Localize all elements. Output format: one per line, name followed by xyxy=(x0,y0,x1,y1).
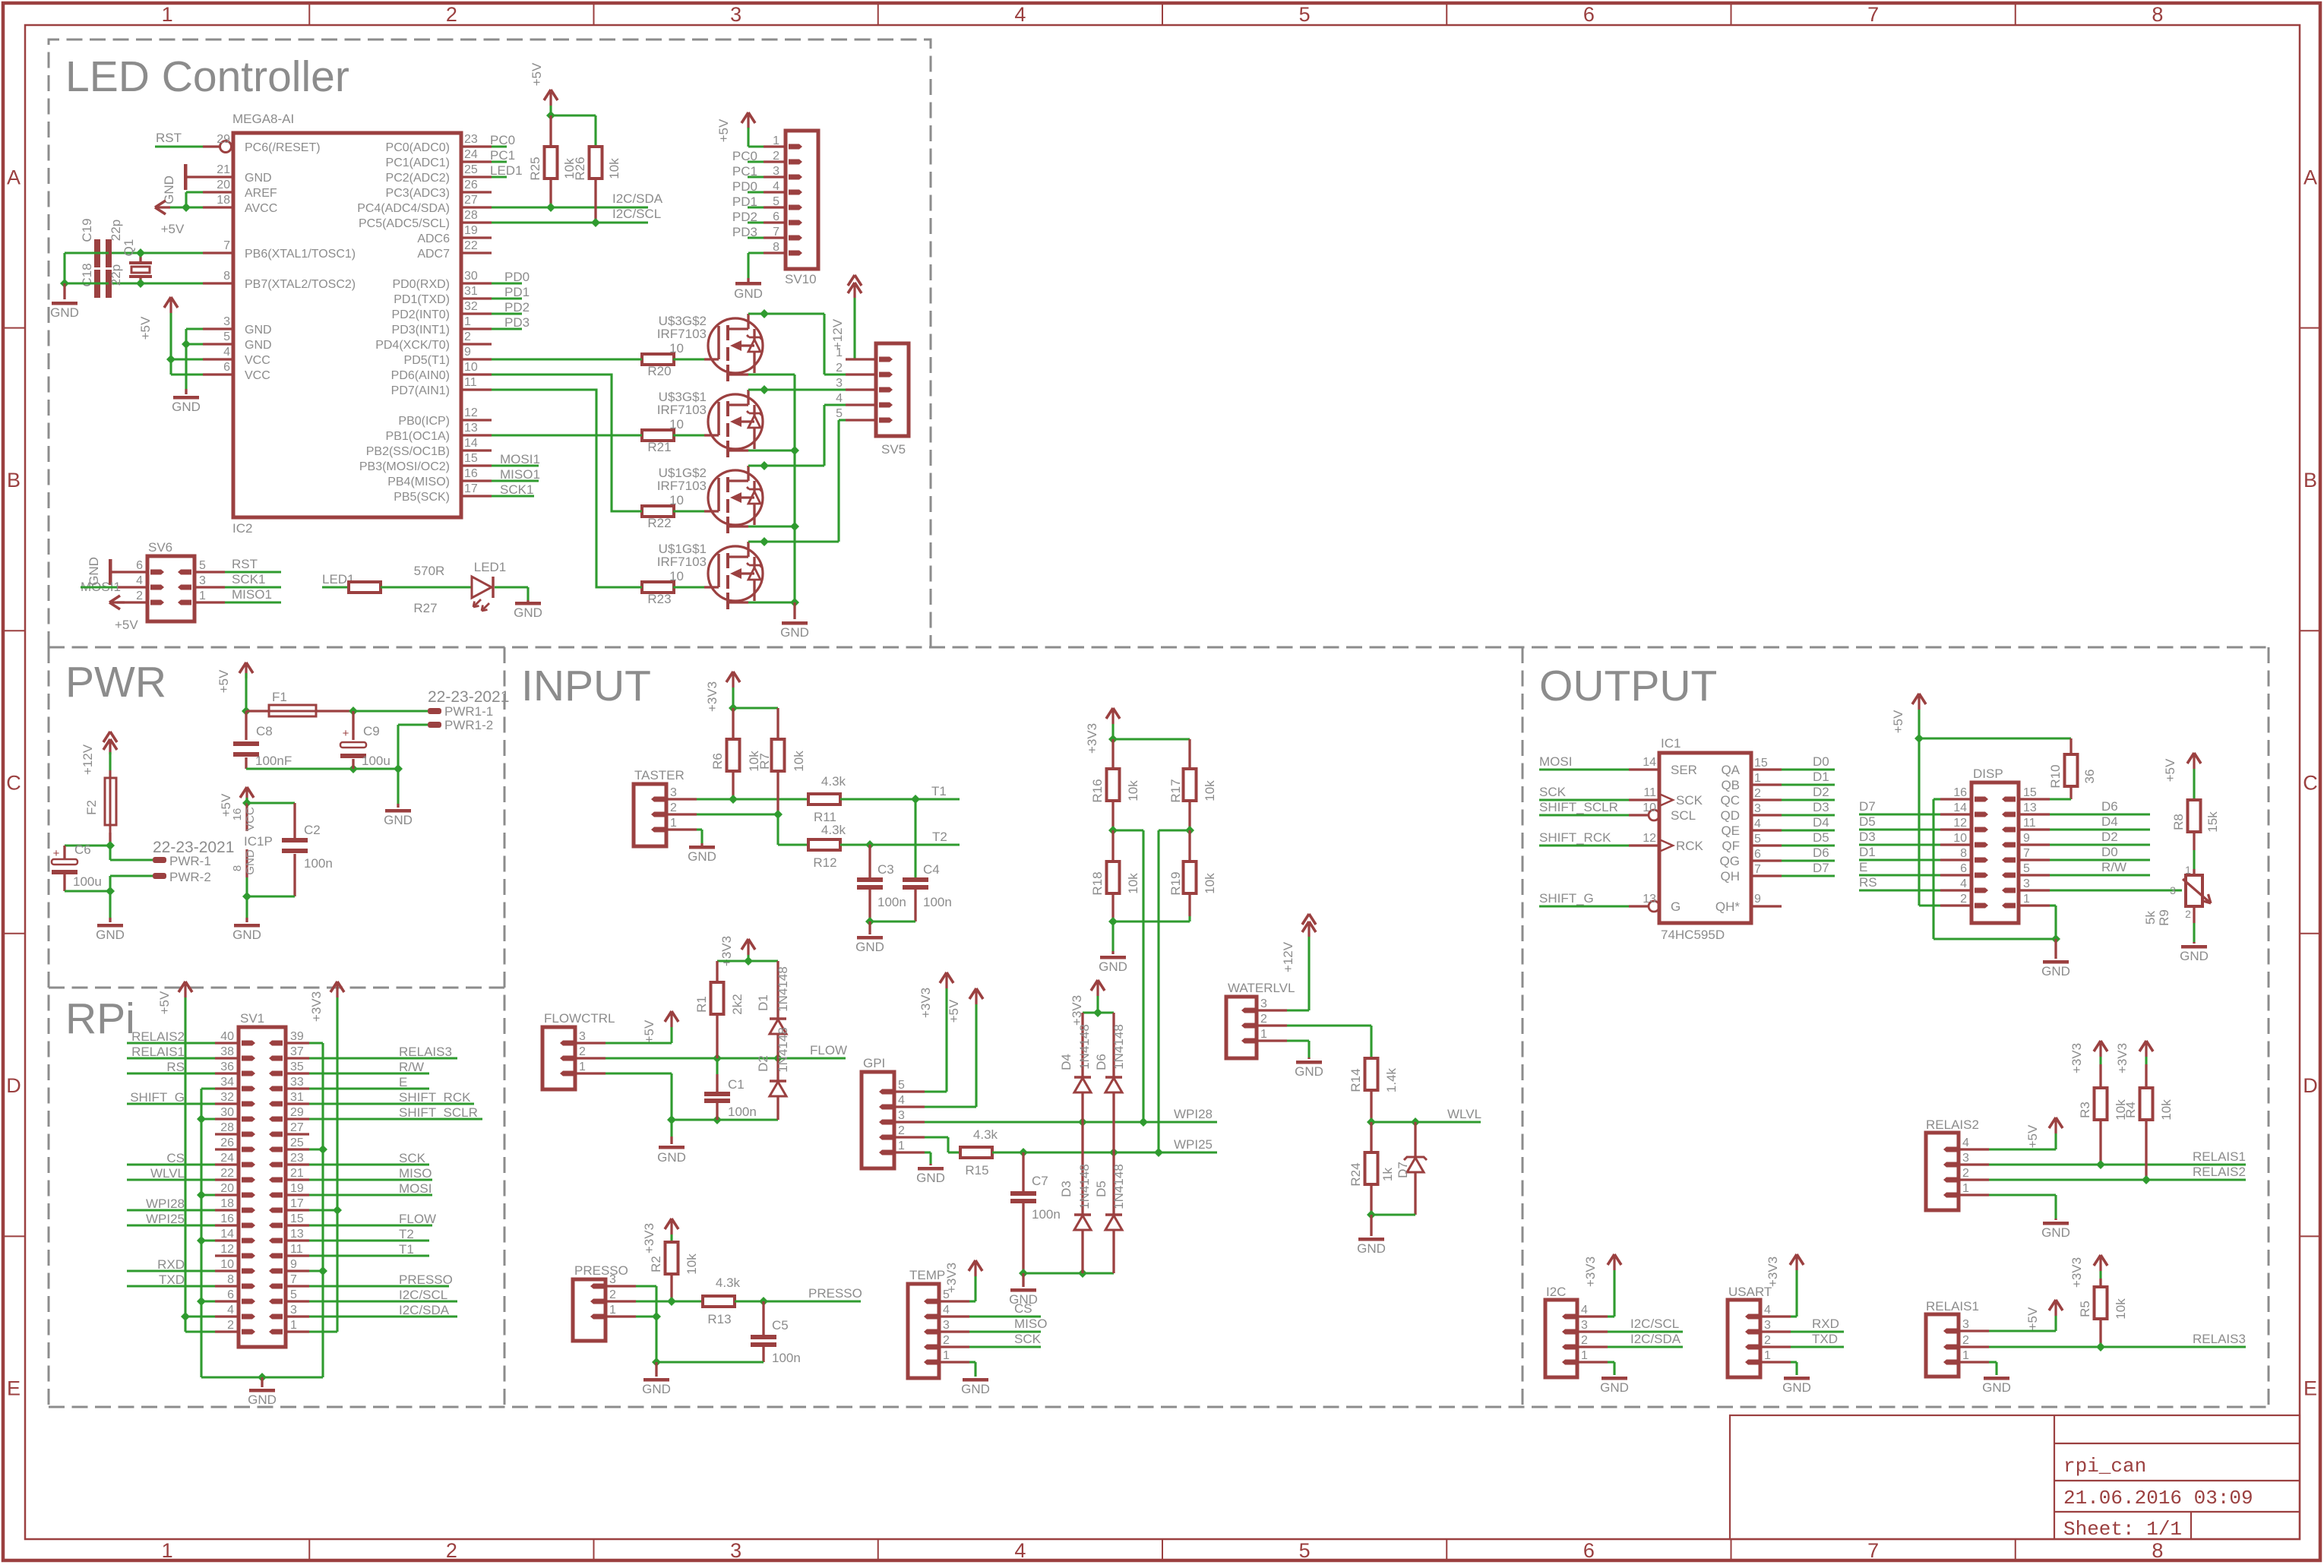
SV1 pin row 12/11 xyxy=(215,1254,239,1257)
svg-text:D1: D1 xyxy=(1859,845,1876,859)
svg-text:+3V3: +3V3 xyxy=(2115,1043,2130,1073)
FLOWCTRL pin 2 xyxy=(575,1057,606,1059)
svg-text:R5: R5 xyxy=(2078,1301,2092,1317)
svg-text:GND: GND xyxy=(916,1171,945,1185)
svg-text:R10: R10 xyxy=(2048,764,2063,788)
junction C3 bottom xyxy=(865,917,874,926)
svg-text:11: 11 xyxy=(1643,786,1656,799)
power +5V arrow above R25 xyxy=(544,90,551,100)
connector DISP box xyxy=(1971,782,2019,923)
IC2 pin 2 PD4(XCK/T0) xyxy=(461,343,492,345)
IC2 pin 10 PD6(AIN0) xyxy=(461,373,492,375)
wire RELAIS2 pin4 xyxy=(1989,1148,2056,1150)
wire R1 bottom xyxy=(716,1014,718,1058)
svg-text:+5V: +5V xyxy=(217,669,231,693)
svg-text:PD0: PD0 xyxy=(504,270,530,284)
svg-text:39: 39 xyxy=(290,1030,304,1043)
svg-text:+3V3: +3V3 xyxy=(642,1223,656,1253)
wire +5V to DISP pin2 xyxy=(1919,904,1940,906)
svg-text:GND: GND xyxy=(2041,964,2070,978)
svg-text:4: 4 xyxy=(1764,1304,1771,1317)
svg-text:RPi: RPi xyxy=(65,994,135,1043)
connector RELAIS2 box xyxy=(1926,1133,1959,1210)
transistor U$1G$1 IRF7103 xyxy=(708,546,763,601)
junction FLOW R1 xyxy=(713,1054,722,1063)
ground symbol C3 xyxy=(868,922,871,934)
RELAIS2 pin 2 xyxy=(1959,1178,1989,1181)
svg-text:D2: D2 xyxy=(2101,830,2118,844)
svg-text:LED1: LED1 xyxy=(474,560,507,574)
wire down to R12 xyxy=(776,814,779,845)
svg-text:GND: GND xyxy=(245,324,272,337)
svg-text:R24: R24 xyxy=(1349,1162,1363,1186)
svg-text:27: 27 xyxy=(464,194,478,207)
ground symbol PRESSO xyxy=(655,1362,657,1377)
ground symbol DISP xyxy=(2054,939,2057,959)
IC2 pin 27 PC4(ADC4/SDA) xyxy=(461,206,492,208)
svg-text:10: 10 xyxy=(1953,832,1967,845)
wire M3 drain to SV5 pin4 xyxy=(748,464,824,466)
svg-text:C2: C2 xyxy=(304,823,321,837)
SV10 pin 8 xyxy=(764,251,786,254)
svg-text:5k: 5k xyxy=(2143,911,2158,925)
net label PD3 at IC2 pin1 xyxy=(492,327,522,330)
capacitor C8 xyxy=(245,711,247,740)
net label SCK1 at IC2 pin17 xyxy=(492,495,534,497)
IC1 pin 10 SCL inverted xyxy=(1629,814,1649,816)
svg-text:D6: D6 xyxy=(1094,1054,1108,1070)
diode D4 1N4148 xyxy=(1081,1013,1083,1076)
svg-text:6: 6 xyxy=(1960,862,1967,875)
section divider x664 xyxy=(504,647,506,1407)
svg-text:3: 3 xyxy=(223,315,230,328)
svg-text:PRESSO: PRESSO xyxy=(574,1263,628,1278)
svg-text:6: 6 xyxy=(227,1288,234,1301)
svg-text:LED Controller: LED Controller xyxy=(65,52,349,101)
svg-text:5: 5 xyxy=(836,407,843,420)
svg-text:PD1(TXD): PD1(TXD) xyxy=(394,293,450,306)
svg-text:2: 2 xyxy=(464,330,471,343)
wire +3V3 pin1 xyxy=(309,1330,337,1332)
svg-text:2: 2 xyxy=(446,1539,457,1562)
svg-text:AVCC: AVCC xyxy=(245,202,277,215)
svg-text:1: 1 xyxy=(1260,1028,1267,1041)
svg-text:RST: RST xyxy=(156,131,182,145)
power +5V arrow SV10 xyxy=(741,112,748,123)
svg-text:SCL: SCL xyxy=(1671,808,1696,823)
power +5V arrow R8 xyxy=(2187,753,2194,763)
svg-text:1N4148: 1N4148 xyxy=(1111,1024,1126,1070)
wire PWR-1 xyxy=(109,846,111,860)
svg-text:3: 3 xyxy=(943,1319,950,1332)
svg-text:1: 1 xyxy=(670,817,677,830)
svg-text:2: 2 xyxy=(1960,893,1967,906)
power +5V arrow SV6 pin2 xyxy=(109,596,120,602)
svg-text:5: 5 xyxy=(1299,3,1311,26)
svg-text:SHIFT_G: SHIFT_G xyxy=(1539,891,1594,906)
svg-text:E: E xyxy=(399,1075,407,1089)
GPI pin 2 xyxy=(894,1136,925,1138)
svg-text:A: A xyxy=(2303,166,2317,188)
svg-text:15: 15 xyxy=(290,1212,304,1225)
svg-text:6: 6 xyxy=(1583,3,1595,26)
svg-text:R14: R14 xyxy=(1349,1068,1363,1092)
svg-text:D5: D5 xyxy=(1813,830,1829,845)
svg-text:PD3(INT1): PD3(INT1) xyxy=(392,324,450,337)
svg-text:22p: 22p xyxy=(109,220,123,241)
wire WATERLVL pin1 to GND xyxy=(1287,1039,1309,1042)
power +12V arrow xyxy=(848,275,855,286)
svg-text:4: 4 xyxy=(1581,1304,1588,1317)
svg-text:7: 7 xyxy=(1754,863,1761,876)
wire to PWR1-1 xyxy=(353,710,428,712)
svg-text:PB1(OC1A): PB1(OC1A) xyxy=(386,430,450,443)
svg-text:TASTER: TASTER xyxy=(634,768,685,782)
svg-text:10k: 10k xyxy=(685,1253,699,1275)
ground symbol IC1P xyxy=(245,896,248,918)
svg-text:7: 7 xyxy=(290,1273,297,1286)
diode D2 1N4148 xyxy=(776,1034,779,1080)
power +3V3 arrow USART xyxy=(1790,1254,1797,1265)
svg-text:12: 12 xyxy=(464,406,478,419)
ground symbol TEMP xyxy=(963,1378,988,1382)
IC2 pin 5 GND xyxy=(203,343,233,345)
IC2 pin 29 PC6(/RESET) xyxy=(203,145,220,147)
svg-text:33: 33 xyxy=(290,1076,304,1089)
title block box xyxy=(1730,1415,2300,1539)
svg-text:B: B xyxy=(7,469,21,492)
wire GPI pin2 to R15 xyxy=(925,1136,948,1138)
svg-text:SHIFT_SCLR: SHIFT_SCLR xyxy=(1539,800,1618,814)
wire TASTER pin3 row T1 xyxy=(732,771,734,799)
svg-text:R1: R1 xyxy=(694,996,709,1013)
svg-text:9: 9 xyxy=(464,346,471,359)
wire RELAIS3 row xyxy=(2099,1319,2101,1347)
wire RELAIS1 pin1 GND xyxy=(1989,1361,1997,1363)
svg-text:GND: GND xyxy=(1982,1380,2011,1395)
svg-text:GPI: GPI xyxy=(863,1056,885,1070)
svg-text:+5V: +5V xyxy=(530,62,544,86)
svg-text:1: 1 xyxy=(943,1349,950,1362)
svg-text:IRF7103: IRF7103 xyxy=(657,403,707,417)
svg-text:PWR: PWR xyxy=(65,658,166,707)
resistor R14 xyxy=(1365,1058,1378,1090)
svg-text:D3: D3 xyxy=(1813,800,1829,814)
capacitor C3 xyxy=(868,845,871,877)
svg-text:19: 19 xyxy=(290,1182,304,1195)
svg-text:R26: R26 xyxy=(573,156,587,180)
svg-text:2: 2 xyxy=(609,1288,616,1301)
junction DISP GND xyxy=(2051,934,2060,944)
svg-text:T1: T1 xyxy=(399,1242,414,1257)
GND bus right SV1 xyxy=(309,1042,323,1044)
wire M2 drain to SV5 pin3 xyxy=(748,388,846,390)
svg-text:1: 1 xyxy=(162,3,173,26)
wire WATERLVL pin2 to R14 xyxy=(1287,1024,1371,1026)
IC1 pin 12 RCK clock xyxy=(1629,844,1659,846)
wire C8 bottom row xyxy=(246,767,398,770)
svg-text:SV6: SV6 xyxy=(148,540,172,555)
svg-text:C9: C9 xyxy=(363,724,380,738)
svg-text:3: 3 xyxy=(199,574,206,587)
svg-text:SHIFT_SCLR: SHIFT_SCLR xyxy=(399,1105,478,1120)
svg-text:WPI25: WPI25 xyxy=(1174,1137,1213,1152)
svg-text:I2C/SCL: I2C/SCL xyxy=(399,1288,447,1302)
svg-text:8: 8 xyxy=(2152,3,2163,26)
IC2 pin 32 PD2(INT0) xyxy=(461,312,492,315)
junction F2 bottom xyxy=(106,841,115,850)
svg-text:GND: GND xyxy=(384,813,413,827)
RELAIS1 pin 2 xyxy=(1959,1345,1989,1348)
connector SV5 box xyxy=(876,343,909,436)
IC2 pin 13 PB1(OC1A) xyxy=(461,434,492,436)
ground symbol below crystal xyxy=(63,283,65,299)
svg-text:MOSI: MOSI xyxy=(399,1181,432,1196)
wire R11 to T1 xyxy=(840,798,960,800)
wire USART pin4 xyxy=(1791,1315,1797,1317)
resistor R20 xyxy=(642,354,674,365)
svg-text:+3V3: +3V3 xyxy=(2069,1257,2084,1288)
power +3V3 arrow I2C xyxy=(1608,1254,1614,1265)
svg-text:SHIFT_RCK: SHIFT_RCK xyxy=(1539,830,1611,845)
wire FLOW row xyxy=(606,1057,846,1059)
TASTER pin 1 xyxy=(666,828,697,830)
junction crystal top xyxy=(136,248,145,258)
wire to C6 top xyxy=(65,844,110,846)
svg-text:GND: GND xyxy=(657,1150,686,1165)
junction WPI28 D3 xyxy=(1078,1118,1087,1127)
junction left leg xyxy=(60,279,69,288)
svg-text:4: 4 xyxy=(1014,3,1026,26)
svg-text:QH*: QH* xyxy=(1715,899,1741,914)
net label PD1 at IC2 pin31 xyxy=(492,297,522,299)
svg-text:2: 2 xyxy=(670,801,677,814)
connector SV1 box xyxy=(239,1027,286,1347)
svg-text:2: 2 xyxy=(2185,908,2191,920)
frame column ticks xyxy=(308,3,310,25)
ground symbol PWR right xyxy=(397,769,399,804)
svg-text:7: 7 xyxy=(2023,847,2030,860)
svg-text:T2: T2 xyxy=(932,830,947,844)
svg-text:PWR1-2: PWR1-2 xyxy=(444,718,493,732)
wire R24 D7 bottom xyxy=(1370,1184,1372,1215)
svg-text:+3V3: +3V3 xyxy=(919,988,933,1018)
svg-text:100n: 100n xyxy=(923,895,952,909)
wire R12 to T2 xyxy=(840,843,960,846)
svg-text:5: 5 xyxy=(773,195,779,208)
svg-text:4: 4 xyxy=(773,180,779,193)
svg-text:4.3k: 4.3k xyxy=(973,1127,998,1142)
svg-text:23: 23 xyxy=(290,1152,304,1165)
net label MOSI1 at IC2 pin15 xyxy=(492,464,539,466)
svg-text:MEGA8-AI: MEGA8-AI xyxy=(232,112,294,126)
svg-text:RST: RST xyxy=(232,557,258,571)
svg-text:8: 8 xyxy=(773,241,779,254)
svg-text:14: 14 xyxy=(220,1228,234,1241)
svg-text:T1: T1 xyxy=(931,784,947,798)
svg-text:+12V: +12V xyxy=(81,744,95,775)
I2C pin 1 xyxy=(1577,1361,1608,1363)
svg-text:10k: 10k xyxy=(2159,1099,2174,1121)
svg-text:PD2(INT0): PD2(INT0) xyxy=(392,308,450,321)
svg-text:8: 8 xyxy=(223,270,230,283)
svg-text:+3V3: +3V3 xyxy=(705,681,719,712)
TEMP pin 1 xyxy=(939,1361,969,1363)
svg-text:15: 15 xyxy=(464,452,478,465)
svg-text:8: 8 xyxy=(231,865,244,871)
capacitor C6 polarized xyxy=(52,859,77,865)
IC2 pin 3 GND xyxy=(203,327,233,330)
svg-text:5: 5 xyxy=(1754,833,1761,846)
wire C7 bottom bus xyxy=(1023,1272,1114,1274)
svg-text:I2C: I2C xyxy=(1546,1285,1566,1299)
SV1 pin row 2/1 xyxy=(215,1330,239,1332)
power +5V arrow GPI pin4 xyxy=(969,988,976,999)
power +5V arrow at AVCC xyxy=(155,201,166,207)
IC2 pin 7 PB6(XTAL1/TOSC1) xyxy=(203,251,233,254)
DISP pin row 14/13 xyxy=(1940,813,1971,815)
junction C5 xyxy=(759,1297,768,1306)
svg-text:B: B xyxy=(2303,469,2317,492)
svg-text:WPI28: WPI28 xyxy=(146,1197,185,1211)
svg-text:+5V: +5V xyxy=(115,618,138,632)
SV10 pin 1 xyxy=(764,145,786,147)
IC2 pin 14 PB2(SS/OC1B) xyxy=(461,449,492,451)
GND bus bottom SV1 xyxy=(201,1376,323,1378)
svg-text:R2: R2 xyxy=(649,1256,663,1272)
svg-text:PD2: PD2 xyxy=(504,300,530,315)
wire RELAIS2 row xyxy=(2145,1120,2147,1180)
svg-text:PB2(SS/OC1B): PB2(SS/OC1B) xyxy=(366,445,450,458)
svg-text:2: 2 xyxy=(1754,787,1761,800)
svg-text:+3V3: +3V3 xyxy=(1583,1257,1598,1287)
svg-text:9: 9 xyxy=(290,1258,297,1271)
RELAIS1 pin 1 xyxy=(1959,1361,1989,1363)
svg-text:IRF7103: IRF7103 xyxy=(657,479,707,493)
svg-text:9: 9 xyxy=(2023,832,2030,845)
svg-text:IC1: IC1 xyxy=(1661,736,1681,751)
wire to R26 top xyxy=(551,114,596,116)
SV10 pin 2 xyxy=(764,160,786,163)
IC2 pin 31 PD1(TXD) xyxy=(461,297,492,299)
IC2 pin 23 PC0(ADC0) xyxy=(461,145,492,147)
IC2 pin 12 PB0(ICP) xyxy=(461,419,492,421)
crystal circuit wires pin8 xyxy=(109,282,203,284)
capacitor C4 xyxy=(914,799,916,877)
ground symbol R18 xyxy=(1111,922,1114,951)
IC1 pin 11 SCK clock xyxy=(1629,798,1659,801)
svg-text:PC1(ADC1): PC1(ADC1) xyxy=(386,156,450,169)
svg-text:3: 3 xyxy=(670,786,677,799)
connector TEMP box xyxy=(908,1284,939,1378)
wire SV10 pin8 to GND xyxy=(748,251,764,254)
TEMP pin 5 xyxy=(939,1300,969,1302)
svg-text:8: 8 xyxy=(1960,847,1967,860)
junction C7 GND xyxy=(1019,1269,1028,1278)
svg-text:6: 6 xyxy=(223,361,230,374)
svg-text:I2C/SDA: I2C/SDA xyxy=(399,1303,450,1317)
IC2 pin 26 PC3(ADC3) xyxy=(461,191,492,193)
svg-text:1: 1 xyxy=(2185,864,2191,876)
svg-text:GND: GND xyxy=(172,400,201,414)
wire M1 drain to SV5 pin2 xyxy=(748,312,824,315)
svg-text:3: 3 xyxy=(730,1539,741,1562)
svg-text:28: 28 xyxy=(220,1121,234,1134)
wire R1 to C1 xyxy=(716,1058,718,1074)
svg-text:VCC: VCC xyxy=(244,807,257,831)
svg-text:GND: GND xyxy=(688,849,716,864)
svg-text:13: 13 xyxy=(290,1228,304,1241)
crystal circuit wires pin7 xyxy=(109,251,203,254)
svg-text:3: 3 xyxy=(1581,1319,1588,1332)
svg-text:PC6(/RESET): PC6(/RESET) xyxy=(245,141,321,154)
svg-text:GND: GND xyxy=(642,1382,671,1396)
svg-text:R8: R8 xyxy=(2171,814,2186,830)
svg-text:D: D xyxy=(2303,1074,2318,1097)
svg-text:D7: D7 xyxy=(1813,861,1829,875)
SV10 pin 3 xyxy=(764,175,786,178)
svg-text:+3V3: +3V3 xyxy=(309,991,324,1022)
diode D6 1N4148 xyxy=(1112,1013,1115,1076)
junction +5V R10 xyxy=(1915,734,1924,743)
svg-text:SCK: SCK xyxy=(399,1151,426,1165)
svg-text:GND: GND xyxy=(2180,949,2209,963)
svg-text:14: 14 xyxy=(1953,801,1967,814)
wire to R7 top xyxy=(733,707,778,709)
svg-text:4.3k: 4.3k xyxy=(821,823,846,837)
svg-text:PD3: PD3 xyxy=(504,315,530,330)
connector SV10 box xyxy=(786,131,818,269)
svg-text:4: 4 xyxy=(836,392,843,405)
svg-text:38: 38 xyxy=(220,1045,234,1058)
svg-text:30: 30 xyxy=(220,1106,234,1119)
wire USART pin1 GND xyxy=(1791,1361,1797,1363)
svg-text:10: 10 xyxy=(220,1258,234,1271)
junction C9 bottom xyxy=(349,764,358,773)
power +3V3 arrow R4 xyxy=(2139,1041,2146,1051)
svg-text:T2: T2 xyxy=(399,1227,414,1241)
svg-text:11: 11 xyxy=(464,376,477,389)
svg-text:11: 11 xyxy=(290,1243,303,1256)
transistor U$1G$2 IRF7103 xyxy=(708,470,763,525)
svg-text:3: 3 xyxy=(1764,1319,1771,1332)
RELAIS2 pin 3 xyxy=(1959,1163,1989,1165)
ground symbol MOSFET bus xyxy=(793,602,795,619)
svg-text:PC5(ADC5/SCL): PC5(ADC5/SCL) xyxy=(359,217,450,230)
power +3V3 arrow R6/R7 xyxy=(726,672,733,682)
svg-text:R18: R18 xyxy=(1090,871,1105,895)
svg-text:SCK: SCK xyxy=(1014,1332,1042,1346)
svg-text:D5: D5 xyxy=(1094,1181,1108,1197)
wire LED1 to GND xyxy=(495,586,528,588)
ground symbol C7 xyxy=(1022,1273,1024,1287)
svg-text:R/W: R/W xyxy=(399,1060,424,1074)
svg-text:GND: GND xyxy=(245,339,272,352)
svg-text:28: 28 xyxy=(464,209,478,222)
resistor R26 xyxy=(590,147,602,179)
TASTER pin 2 xyxy=(666,813,697,815)
svg-text:SCK: SCK xyxy=(1539,785,1567,799)
IC2 pin 28 PC5(ADC5/SCL) xyxy=(461,221,492,223)
resistor R18 xyxy=(1111,830,1114,861)
power +5V arrow RELAIS2 xyxy=(2049,1118,2056,1128)
FLOWCTRL pin 3 xyxy=(575,1042,606,1044)
svg-text:18: 18 xyxy=(220,1197,234,1210)
svg-text:INPUT: INPUT xyxy=(521,662,651,710)
resistor R13 xyxy=(703,1296,735,1307)
svg-text:D0: D0 xyxy=(1813,754,1829,769)
wire RELAIS1 pin3 xyxy=(1989,1329,2056,1332)
